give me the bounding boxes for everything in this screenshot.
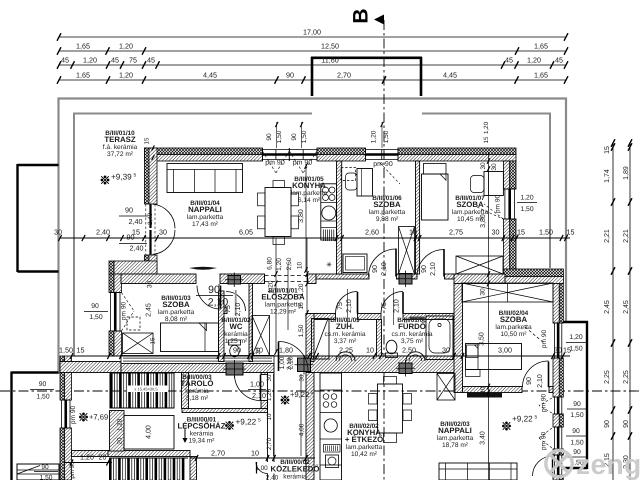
közlekedő/lépcsőház door xyxy=(256,462,258,474)
svg-text:2,70: 2,70 xyxy=(266,437,273,450)
left neighbour balcony (thick) xyxy=(18,164,59,166)
top exterior wall xyxy=(145,148,263,155)
konyha02 counter xyxy=(320,373,342,480)
svg-text:lam.parketta: lam.parketta xyxy=(495,324,532,331)
svg-text:+9,22: +9,22 xyxy=(512,415,533,424)
svg-text:pm 90: pm 90 xyxy=(541,330,548,349)
west exterior wall (stair block) xyxy=(60,356,65,400)
section line B-B vertical xyxy=(383,20,385,480)
svg-text:pm 90: pm 90 xyxy=(495,195,502,214)
dining table01 xyxy=(265,188,291,237)
terasz double door xyxy=(149,204,151,228)
zuh west wall xyxy=(306,314,314,362)
svg-text:1,50: 1,50 xyxy=(276,130,283,143)
stairwell west window xyxy=(60,399,72,401)
svg-text:1,20: 1,20 xyxy=(80,453,94,462)
sofa02 xyxy=(439,463,517,480)
ventilation shafts (dark) xyxy=(228,276,241,285)
terasz/nappali wall xyxy=(145,148,150,204)
stair upper flight xyxy=(110,373,113,408)
svg-text:90: 90 xyxy=(573,401,581,408)
svg-text:4,45: 4,45 xyxy=(443,71,457,80)
svg-text:FÜRDŐ: FÜRDŐ xyxy=(398,322,426,331)
svg-text:4,00: 4,00 xyxy=(299,423,306,436)
svg-text:30: 30 xyxy=(554,346,562,355)
svg-text:pm 90: pm 90 xyxy=(541,432,548,451)
svg-text:pm 90: pm 90 xyxy=(121,302,128,321)
svg-text:10: 10 xyxy=(480,386,487,393)
section line horizontal xyxy=(0,390,640,392)
szoba07 wardrobe xyxy=(456,256,503,274)
svg-text:cs.m. kerámia: cs.m. kerámia xyxy=(391,331,432,338)
acoustic layer strips xyxy=(121,356,274,364)
svg-text:2,21: 2,21 xyxy=(604,229,611,243)
svg-text:+ ÉTKEZŐ: + ÉTKEZŐ xyxy=(345,435,383,444)
svg-text:lam.parketta: lam.parketta xyxy=(437,435,474,442)
szoba07 east window xyxy=(503,188,516,190)
svg-text:15: 15 xyxy=(567,228,575,237)
svg-text:90: 90 xyxy=(291,133,298,141)
svg-text:3,50: 3,50 xyxy=(479,332,486,346)
svg-text:3,80: 3,80 xyxy=(480,214,487,228)
svg-text:1,50: 1,50 xyxy=(539,228,553,237)
svg-text:30: 30 xyxy=(147,281,154,289)
svg-text:5: 5 xyxy=(311,390,314,396)
svg-text:2,40: 2,40 xyxy=(147,212,154,225)
svg-text:4,45: 4,45 xyxy=(203,71,217,80)
svg-text:kerámia: kerámia xyxy=(283,474,307,480)
svg-text:lam.parketta: lam.parketta xyxy=(346,444,383,451)
svg-text:11,60: 11,60 xyxy=(321,56,338,65)
svg-text:10: 10 xyxy=(251,449,259,458)
svg-text:9,88 m²: 9,88 m² xyxy=(376,216,399,223)
stepped wall to lower east part xyxy=(503,269,563,277)
svg-text:90: 90 xyxy=(91,303,99,310)
south wall of upper flat / stair block xyxy=(72,451,109,457)
fürdő / szoba04 wall xyxy=(454,284,463,393)
svg-text:30: 30 xyxy=(442,346,450,355)
svg-text:1,80: 1,80 xyxy=(279,346,293,355)
svg-text:2,40: 2,40 xyxy=(129,217,143,226)
svg-text:SZOBA: SZOBA xyxy=(162,300,190,309)
svg-text:2,10: 2,10 xyxy=(430,262,437,276)
svg-text:2,10: 2,10 xyxy=(394,299,401,313)
szoba07 door xyxy=(443,249,445,277)
svg-text:90: 90 xyxy=(208,284,220,296)
szoba04 door xyxy=(548,362,550,388)
szoba04 sideboard xyxy=(462,283,553,302)
svg-text:1,65: 1,65 xyxy=(76,71,90,80)
svg-text:pm 90: pm 90 xyxy=(541,394,548,413)
svg-text:12,50: 12,50 xyxy=(321,42,339,51)
svg-text:3,18 m²: 3,18 m² xyxy=(186,395,209,402)
WC / szoba03 walls xyxy=(219,291,225,362)
svg-text:90: 90 xyxy=(125,206,133,215)
svg-text:1,74: 1,74 xyxy=(604,169,611,183)
svg-text:17,43 m²: 17,43 m² xyxy=(192,221,219,228)
svg-text:NAPPALI: NAPPALI xyxy=(188,205,222,214)
right balcony outline (thick) xyxy=(563,321,588,323)
fridge xyxy=(343,254,367,273)
zuh washbasin xyxy=(336,352,355,361)
svg-text:+9,22: +9,22 xyxy=(236,418,257,427)
svg-text:90: 90 xyxy=(41,464,49,471)
svg-text:1,00: 1,00 xyxy=(255,465,268,472)
svg-text:1,50: 1,50 xyxy=(36,394,49,401)
svg-text:1,20: 1,20 xyxy=(119,71,133,80)
svg-text:2,10: 2,10 xyxy=(346,299,353,313)
szoba06 north window xyxy=(365,148,367,161)
svg-text:15: 15 xyxy=(150,337,157,344)
stair bottom walls xyxy=(108,451,190,457)
svg-text:5: 5 xyxy=(258,418,261,424)
svg-text:pm 90: pm 90 xyxy=(70,406,77,425)
wc toilet xyxy=(229,340,241,345)
szoba03 west window xyxy=(109,292,122,294)
canopy outline top center (thick) xyxy=(311,57,314,96)
vertical interior dims előszoba xyxy=(275,238,277,352)
svg-text:10: 10 xyxy=(298,302,305,310)
nappali02 wardrobe xyxy=(437,374,455,401)
svg-text:20: 20 xyxy=(99,453,107,462)
svg-text:1,20: 1,20 xyxy=(117,418,124,431)
svg-text:2,50: 2,50 xyxy=(402,346,416,355)
svg-text:1,20: 1,20 xyxy=(520,195,533,202)
svg-text:1,50: 1,50 xyxy=(570,440,583,447)
svg-text:3,75 m²: 3,75 m² xyxy=(401,338,424,345)
svg-text:2,25: 2,25 xyxy=(339,346,353,355)
szoba04 south partition xyxy=(463,387,523,393)
svg-text:1,50: 1,50 xyxy=(569,346,582,353)
fürdő washbasin xyxy=(406,352,425,361)
vertical dims közlekedő xyxy=(273,374,275,456)
balcony door nappali02 xyxy=(533,456,553,476)
svg-text:2,75: 2,75 xyxy=(449,228,463,237)
svg-text:10,42 m²: 10,42 m² xyxy=(351,451,378,458)
svg-text:45: 45 xyxy=(61,56,69,65)
svg-text:30: 30 xyxy=(492,228,500,237)
svg-text:kerámia: kerámia xyxy=(190,431,214,438)
svg-text:2,10: 2,10 xyxy=(235,303,242,317)
sofa nappali01 xyxy=(167,164,243,193)
svg-text:1,50: 1,50 xyxy=(40,475,53,480)
svg-text:10: 10 xyxy=(409,228,417,237)
east exterior wall upper xyxy=(503,161,509,189)
svg-text:6,05: 6,05 xyxy=(239,228,253,237)
svg-text:1,65: 1,65 xyxy=(534,42,548,51)
svg-text:90: 90 xyxy=(623,420,630,428)
dashed window swing marks xyxy=(263,151,276,173)
svg-text:30: 30 xyxy=(480,288,487,296)
bathroom row north wall xyxy=(306,314,336,320)
svg-text:90: 90 xyxy=(233,346,241,355)
szoba06 / szoba07 partition xyxy=(416,161,420,274)
svg-text:1,20: 1,20 xyxy=(83,56,97,65)
fürdő toilet xyxy=(386,340,397,354)
svg-text:zenga: zenga xyxy=(576,449,640,480)
svg-text:4,00: 4,00 xyxy=(146,425,153,439)
svg-text:3,37 m²: 3,37 m² xyxy=(334,338,357,345)
svg-text:✳: ✳ xyxy=(326,261,332,269)
svg-text:2,10: 2,10 xyxy=(286,357,293,370)
svg-text:75: 75 xyxy=(337,302,344,310)
svg-text:45: 45 xyxy=(555,56,563,65)
svg-text:3,80: 3,80 xyxy=(298,209,305,223)
svg-text:B: B xyxy=(350,8,373,23)
svg-text:15: 15 xyxy=(483,136,490,143)
svg-text:pm 90: pm 90 xyxy=(373,161,393,168)
svg-text:x 15,45=30,5: x 15,45=30,5 xyxy=(134,387,158,392)
svg-text:1,50: 1,50 xyxy=(89,314,102,321)
svg-text:LÉPCSŐHÁZ: LÉPCSŐHÁZ xyxy=(177,422,225,431)
stair direction arrow xyxy=(184,428,186,440)
tároló / lépcsőház wall xyxy=(182,409,268,413)
svg-text:2,45: 2,45 xyxy=(623,300,630,314)
szoba03 radiator dashed xyxy=(127,317,140,330)
zuh / fürdő partition xyxy=(377,320,382,357)
szoba04 bed xyxy=(466,344,522,370)
svg-text:lam.parketta: lam.parketta xyxy=(158,309,195,316)
szoba07 bed xyxy=(422,174,449,220)
szoba03 wardrobe xyxy=(123,333,154,354)
svg-text:lam.parketta: lam.parketta xyxy=(265,302,302,309)
svg-text:15: 15 xyxy=(604,146,611,154)
svg-text:2,10: 2,10 xyxy=(252,391,266,400)
right dimension chains xyxy=(612,142,614,480)
east window dashed swings xyxy=(539,398,552,406)
svg-text:2,60: 2,60 xyxy=(286,257,293,270)
svg-text:1,20: 1,20 xyxy=(266,388,273,401)
svg-text:kerámia: kerámia xyxy=(185,388,209,395)
svg-text:f.á. kerámia: f.á. kerámia xyxy=(103,144,138,151)
svg-text:KÖZLEKEDŐ: KÖZLEKEDŐ xyxy=(271,465,320,474)
közlekedő walls xyxy=(267,373,269,463)
svg-text:2,60: 2,60 xyxy=(365,228,379,237)
fürdő door xyxy=(402,292,404,314)
svg-text:1,20: 1,20 xyxy=(371,130,378,143)
level marks xyxy=(101,176,109,184)
svg-text:90: 90 xyxy=(526,377,533,385)
svg-text:30: 30 xyxy=(159,228,167,237)
svg-text:1,20: 1,20 xyxy=(119,42,133,51)
svg-text:SZOBA: SZOBA xyxy=(500,315,528,324)
bathtub xyxy=(426,316,453,360)
zuh shower xyxy=(312,319,330,360)
szoba04 dashed window swing xyxy=(525,327,544,343)
előszoba storage xyxy=(252,316,270,356)
svg-text:6,80: 6,80 xyxy=(267,257,274,270)
svg-text:1,50: 1,50 xyxy=(59,346,73,355)
szoba03 door xyxy=(220,286,222,309)
svg-text:1,65: 1,65 xyxy=(534,71,548,80)
tv sideboard (dark) xyxy=(189,267,217,270)
svg-text:90: 90 xyxy=(266,133,273,141)
konyha01 counter xyxy=(321,184,337,240)
flat01 entrance door xyxy=(278,342,280,372)
svg-text:15: 15 xyxy=(563,346,571,355)
tároló east wall xyxy=(261,373,268,375)
dining table02 xyxy=(378,384,403,433)
svg-text:45: 45 xyxy=(147,56,155,65)
tároló door xyxy=(260,375,262,401)
svg-text:2,25: 2,25 xyxy=(604,370,611,384)
svg-text:TERASZ: TERASZ xyxy=(104,135,135,144)
svg-text:pm 90: pm 90 xyxy=(69,461,76,479)
svg-text:19,34 m²: 19,34 m² xyxy=(188,438,215,445)
svg-text:17,00: 17,00 xyxy=(303,28,321,37)
WC door xyxy=(226,292,246,312)
svg-text:18,78 m²: 18,78 m² xyxy=(442,442,469,449)
svg-text:NAPPALI: NAPPALI xyxy=(438,426,472,435)
svg-text:kerámia: kerámia xyxy=(224,331,248,338)
szoba04 east window xyxy=(553,322,563,324)
watermark zenga xyxy=(546,450,572,476)
west exterior wall (szoba03) xyxy=(109,261,114,274)
svg-text:2,45: 2,45 xyxy=(604,300,611,314)
svg-text:30: 30 xyxy=(491,163,498,171)
svg-text:10: 10 xyxy=(297,262,304,270)
svg-text:KONYHA: KONYHA xyxy=(292,181,326,190)
svg-text:cs.m. kerámia: cs.m. kerámia xyxy=(324,331,365,338)
svg-text:1,00: 1,00 xyxy=(250,380,264,389)
svg-text:+9,39: +9,39 xyxy=(111,173,132,182)
svg-text:3,40: 3,40 xyxy=(480,431,487,445)
konyha / szoba06 wall xyxy=(337,161,342,274)
svg-text:lam.parketta: lam.parketta xyxy=(291,190,328,197)
svg-text:10: 10 xyxy=(366,346,374,355)
svg-text:6,14 m²: 6,14 m² xyxy=(298,197,321,204)
svg-text:30: 30 xyxy=(480,162,487,170)
szoba06 door xyxy=(395,249,397,277)
svg-text:1,20: 1,20 xyxy=(483,121,490,134)
svg-text:15: 15 xyxy=(517,228,525,237)
svg-text:2,70: 2,70 xyxy=(211,449,225,458)
szoba07 desk+chair xyxy=(484,172,503,196)
stair lower flight xyxy=(109,458,112,480)
svg-text:12,29 m²: 12,29 m² xyxy=(270,309,297,316)
svg-text:30: 30 xyxy=(299,374,306,381)
svg-text:1,50: 1,50 xyxy=(301,130,308,143)
svg-text:2,45: 2,45 xyxy=(146,303,153,317)
svg-text:1,20: 1,20 xyxy=(298,283,305,296)
stair / tároló wall xyxy=(182,373,189,409)
svg-text:2,10: 2,10 xyxy=(537,374,544,388)
svg-text:TÁROLÓ: TÁROLÓ xyxy=(181,379,214,388)
svg-text:1,20: 1,20 xyxy=(268,280,275,293)
svg-text:2,40: 2,40 xyxy=(266,475,279,480)
svg-text:SZOBA: SZOBA xyxy=(373,200,401,209)
svg-text:45: 45 xyxy=(111,56,119,65)
svg-text:1,20: 1,20 xyxy=(527,56,541,65)
svg-text:90: 90 xyxy=(372,265,379,273)
svg-text:30: 30 xyxy=(54,228,62,237)
svg-text:2,40: 2,40 xyxy=(130,244,144,253)
zuh door xyxy=(357,292,359,314)
svg-text:1,50: 1,50 xyxy=(520,206,533,213)
svg-text:75: 75 xyxy=(225,305,232,313)
svg-text:2,40: 2,40 xyxy=(96,228,110,237)
mullion dim verticals xyxy=(276,122,278,148)
top dimension chains xyxy=(59,36,566,38)
szoba06 wardrobe xyxy=(399,227,415,275)
svg-text:3,00: 3,00 xyxy=(498,346,512,355)
stair mid landing xyxy=(124,416,174,450)
svg-text:37,72 m²: 37,72 m² xyxy=(107,151,134,158)
svg-text:75: 75 xyxy=(381,302,388,310)
svg-text:SZOBA: SZOBA xyxy=(456,200,484,209)
svg-text:2,10: 2,10 xyxy=(381,262,388,276)
svg-text:lam.parketta: lam.parketta xyxy=(369,209,406,216)
svg-text:45: 45 xyxy=(505,56,513,65)
nappali north windows xyxy=(262,148,264,161)
svg-text:30: 30 xyxy=(255,347,262,354)
svg-text:5: 5 xyxy=(134,173,137,179)
svg-text:+9,22: +9,22 xyxy=(290,390,309,399)
szoba03 bed xyxy=(161,323,219,352)
svg-text:8,08 m²: 8,08 m² xyxy=(165,316,188,323)
svg-text:2,70: 2,70 xyxy=(337,71,351,80)
svg-text:1,50: 1,50 xyxy=(570,412,583,419)
svg-text:90: 90 xyxy=(421,265,428,273)
svg-text:WC: WC xyxy=(230,322,243,331)
svg-text:90: 90 xyxy=(286,71,294,80)
svg-text:1,25 m²: 1,25 m² xyxy=(225,338,248,345)
svg-text:90: 90 xyxy=(572,428,580,435)
svg-text:5: 5 xyxy=(535,415,538,421)
vertical dim konyha xyxy=(305,164,307,272)
svg-text:20: 20 xyxy=(117,437,124,444)
svg-text:10: 10 xyxy=(266,413,273,420)
svg-text:10,50 m²: 10,50 m² xyxy=(500,331,527,338)
left bottom window symbol xyxy=(17,464,59,480)
svg-text:90: 90 xyxy=(39,381,47,388)
corridor north wall xyxy=(121,274,196,284)
svg-text:30: 30 xyxy=(266,374,273,381)
vertical dim szoba07 xyxy=(488,152,490,480)
svg-text:lam.parketta: lam.parketta xyxy=(187,214,224,221)
svg-text:ZUH.: ZUH. xyxy=(336,322,354,331)
nappali02 tv xyxy=(467,393,502,398)
east exterior wall lower xyxy=(553,284,559,324)
svg-text:15: 15 xyxy=(144,137,151,144)
interior dim row y=238 xyxy=(60,237,570,239)
svg-text:1,20: 1,20 xyxy=(276,258,283,271)
interior dim row y=356 xyxy=(72,355,571,357)
svg-text:75: 75 xyxy=(129,56,137,65)
svg-text:2,21: 2,21 xyxy=(623,229,630,243)
svg-text:1,89: 1,89 xyxy=(623,166,630,180)
nappali02 east windows xyxy=(553,396,563,398)
svg-text:90: 90 xyxy=(604,420,611,428)
svg-text:1,00: 1,00 xyxy=(279,356,286,369)
svg-text:1,65: 1,65 xyxy=(76,42,90,51)
svg-text:+7,69: +7,69 xyxy=(89,413,108,422)
szoba06 desk+chair xyxy=(357,169,373,197)
interior dim row y=459 xyxy=(64,462,112,464)
upper storey outline (gray) xyxy=(58,97,567,99)
svg-text:1,20: 1,20 xyxy=(569,334,582,341)
svg-text:15: 15 xyxy=(77,346,85,355)
svg-text:1,50: 1,50 xyxy=(298,324,305,337)
svg-text:1,50: 1,50 xyxy=(383,130,390,143)
bottom-left terrace edge (thick) xyxy=(12,371,59,373)
svg-text:2,25: 2,25 xyxy=(623,370,630,384)
svg-text:15: 15 xyxy=(132,228,140,237)
